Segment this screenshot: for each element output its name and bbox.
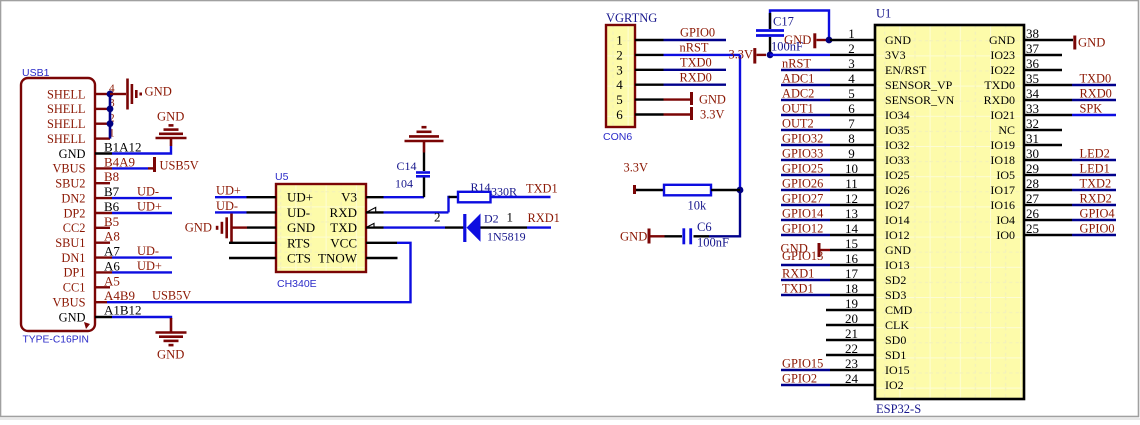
wire GPIO27 at U1 pin12 <box>781 204 830 206</box>
svg-text:GPIO33: GPIO33 <box>782 147 823 161</box>
wire net UD- <box>112 197 172 199</box>
power port GND at CON6 pin5 <box>690 92 693 105</box>
wire net UD- <box>112 256 172 258</box>
wire USB5V long run to CH340E VCC <box>107 243 411 302</box>
CON6 pin 6 stub <box>635 113 664 115</box>
svg-text:GND: GND <box>185 221 212 235</box>
svg-text:NC: NC <box>998 123 1015 137</box>
wire A1B12 to ground <box>112 317 171 319</box>
pin stub UD- <box>247 211 277 213</box>
wire UD+ into U5 <box>215 196 247 198</box>
pin stub U1 pin36 (no net) <box>1024 69 1062 71</box>
svg-text:RXD0: RXD0 <box>680 70 712 84</box>
connector USB1 body TYPE-C16PIN <box>21 78 95 331</box>
svg-text:GND: GND <box>145 85 172 99</box>
pin stub U1 pin18 <box>830 294 875 296</box>
wire RXD up to R14 <box>449 197 451 212</box>
svg-text:IO22: IO22 <box>990 63 1015 77</box>
pin stub A7 <box>95 256 112 258</box>
svg-text:TXD1: TXD1 <box>526 182 558 196</box>
wire TXD0 at U1 pin35 <box>1072 84 1116 86</box>
svg-text:27: 27 <box>1026 191 1040 206</box>
svg-text:GND: GND <box>620 230 647 244</box>
CON6 pin 5 stub <box>635 98 664 100</box>
svg-text:ADC2: ADC2 <box>782 87 814 101</box>
svg-text:LED1: LED1 <box>1080 162 1110 176</box>
wire GPIO32 at U1 pin8 <box>781 144 830 146</box>
svg-text:12: 12 <box>845 191 858 206</box>
pin stub U1 pin8 <box>830 144 875 146</box>
svg-text:GPIO14: GPIO14 <box>782 207 823 221</box>
svg-text:B1A12: B1A12 <box>104 140 142 155</box>
svg-text:2: 2 <box>434 210 441 225</box>
svg-text:5: 5 <box>848 86 855 101</box>
wire UD- into U5 <box>215 211 247 213</box>
svg-text:UD+: UD+ <box>137 200 162 214</box>
wire OUT1 at U1 pin6 <box>781 114 830 116</box>
pin stub U1 pin19 (no net) <box>826 309 875 311</box>
svg-text:RTS: RTS <box>287 235 310 250</box>
svg-text:GPIO0: GPIO0 <box>680 26 715 40</box>
svg-text:35: 35 <box>1026 71 1039 86</box>
wire TXD to D2 <box>384 226 446 228</box>
svg-text:IO12: IO12 <box>885 228 910 242</box>
svg-text:SD2: SD2 <box>885 273 906 287</box>
svg-text:GND: GND <box>157 110 184 124</box>
svg-text:SHELL: SHELL <box>47 132 86 146</box>
pin stub U1 pin24 <box>830 384 875 386</box>
wire GPIO15 at U1 pin23 <box>781 369 830 371</box>
pin stub U1 pin22 (no net) <box>826 354 875 356</box>
svg-text:U1: U1 <box>876 7 891 21</box>
USB1 SHELL pin stub <box>95 137 110 139</box>
svg-text:UD-: UD- <box>287 205 310 220</box>
svg-text:GND: GND <box>1078 36 1105 50</box>
wire GPIO33 at U1 pin9 <box>781 159 830 161</box>
svg-text:RXD1: RXD1 <box>782 267 814 281</box>
CON6 pin 4 stub <box>635 83 664 85</box>
wire GPIO26 at U1 pin11 <box>781 189 830 191</box>
svg-text:GND: GND <box>885 243 911 257</box>
pin stub U1 pin31 (no net) <box>1024 144 1062 146</box>
pin stub U1 pin23 <box>830 369 875 371</box>
svg-text:C14: C14 <box>397 159 417 173</box>
svg-text:6: 6 <box>616 107 623 122</box>
svg-text:13: 13 <box>845 206 858 221</box>
svg-text:GND: GND <box>287 220 315 235</box>
USB1 SHELL pin stub <box>95 93 110 95</box>
capacitor C6 left lead <box>665 235 683 237</box>
svg-text:C17: C17 <box>773 15 794 29</box>
pin stub U1 pin14 <box>830 234 875 236</box>
svg-text:IO16: IO16 <box>990 198 1015 212</box>
svg-text:IO13: IO13 <box>885 258 910 272</box>
pin stub U1 pin27 <box>1024 204 1072 206</box>
wire SHELL to chassis ground <box>110 93 126 95</box>
svg-text:21: 21 <box>845 326 858 341</box>
svg-text:GPIO13: GPIO13 <box>782 249 823 263</box>
capacitor C17 bottom lead <box>769 37 771 55</box>
svg-text:TYPE-C16PIN: TYPE-C16PIN <box>23 334 89 345</box>
svg-text:SBU1: SBU1 <box>55 236 85 250</box>
wire nRST vertical run lower to C6 <box>709 189 740 236</box>
svg-text:20: 20 <box>845 311 858 326</box>
wire GPIO0 from CON6 pin1 <box>664 39 727 41</box>
svg-text:33: 33 <box>1026 101 1039 116</box>
svg-text:3V3: 3V3 <box>885 48 906 62</box>
power port USB5V bar <box>153 157 156 172</box>
svg-text:R14: R14 <box>471 180 491 194</box>
svg-text:TXD: TXD <box>330 220 357 235</box>
svg-text:16: 16 <box>845 251 859 266</box>
wire GPIO12 at U1 pin14 <box>781 234 830 236</box>
power port 3.3V at CON6 pin6 <box>690 107 693 120</box>
svg-text:24: 24 <box>845 371 859 386</box>
svg-text:104: 104 <box>395 177 413 191</box>
svg-text:ADC1: ADC1 <box>782 72 814 86</box>
svg-text:IO19: IO19 <box>990 138 1015 152</box>
svg-text:SHELL: SHELL <box>47 87 86 101</box>
svg-text:IO25: IO25 <box>885 168 910 182</box>
wire RXD2 at U1 pin27 <box>1072 204 1116 206</box>
svg-text:31: 31 <box>1026 131 1039 146</box>
wire GPIO0 at U1 pin25 <box>1072 234 1116 236</box>
wire net UD+ <box>112 271 172 273</box>
svg-text:VBUS: VBUS <box>52 162 85 176</box>
svg-text:OUT2: OUT2 <box>782 117 814 131</box>
svg-text:UD-: UD- <box>137 244 159 258</box>
svg-text:4: 4 <box>616 77 623 92</box>
svg-text:37: 37 <box>1026 41 1040 56</box>
svg-text:100nF: 100nF <box>697 236 729 250</box>
svg-text:3.3V: 3.3V <box>624 161 648 175</box>
svg-text:2: 2 <box>616 47 623 62</box>
svg-text:3: 3 <box>848 56 855 71</box>
svg-text:GPIO32: GPIO32 <box>782 132 823 146</box>
pin stub A5 <box>95 286 110 288</box>
svg-text:IO18: IO18 <box>990 153 1015 167</box>
capacitor C14 bottom lead <box>423 178 425 198</box>
svg-text:UD+: UD+ <box>137 259 162 273</box>
svg-text:GPIO12: GPIO12 <box>782 222 823 236</box>
USB1 pin1-marker dot <box>84 322 90 329</box>
ground (signal-ground symbol) at SHELL <box>126 79 129 110</box>
pin stub U1 pin30 <box>1024 159 1072 161</box>
capacitor C14 plates <box>416 171 430 174</box>
svg-text:SD1: SD1 <box>885 348 906 362</box>
svg-text:UD+: UD+ <box>287 190 313 205</box>
svg-text:A5: A5 <box>104 273 120 288</box>
capacitor C14 top lead <box>423 153 425 172</box>
svg-text:IO17: IO17 <box>990 183 1015 197</box>
svg-text:1: 1 <box>848 26 855 41</box>
svg-text:IO27: IO27 <box>885 198 910 212</box>
wire RXD1 from D2 <box>527 226 551 228</box>
junction nRST/10k <box>737 187 744 194</box>
pin stub U1 pin16 <box>830 264 875 266</box>
wire TXD1 from R14 <box>491 196 551 198</box>
svg-text:IO14: IO14 <box>885 213 910 227</box>
svg-text:LED2: LED2 <box>1080 147 1110 161</box>
pin stub U1 pin20 (no net) <box>826 324 875 326</box>
svg-text:18: 18 <box>845 281 858 296</box>
pin stub U1 pin7 <box>830 129 875 131</box>
pin stub U1 pin29 <box>1024 174 1072 176</box>
USB1 SHELL pin stub <box>95 108 110 110</box>
wire GPIO14 at U1 pin13 <box>781 219 830 221</box>
svg-text:38: 38 <box>1026 26 1039 41</box>
svg-text:GND: GND <box>784 33 811 47</box>
svg-text:USB5V: USB5V <box>152 289 191 303</box>
svg-text:TXD0: TXD0 <box>1080 72 1112 86</box>
svg-text:IO32: IO32 <box>885 138 910 152</box>
svg-text:GND: GND <box>157 348 184 362</box>
pin stub B8 <box>95 182 110 184</box>
wire GPIO13 at U1 pin16 <box>781 264 830 266</box>
svg-text:DN2: DN2 <box>61 191 85 205</box>
svg-text:15: 15 <box>845 236 858 251</box>
svg-text:GPIO15: GPIO15 <box>782 357 823 371</box>
svg-text:UD-: UD- <box>216 199 238 213</box>
svg-text:GND: GND <box>59 310 86 324</box>
svg-text:1: 1 <box>507 210 514 225</box>
wire nRST from CON6 pin2 <box>664 54 741 56</box>
svg-text:SD0: SD0 <box>885 333 906 347</box>
pin stub RTS <box>229 242 276 244</box>
wire C6 to GND port <box>651 235 665 237</box>
svg-text:IO5: IO5 <box>996 168 1015 182</box>
svg-text:RXD2: RXD2 <box>1080 192 1112 206</box>
pin stub U1 pin33 <box>1024 114 1072 116</box>
svg-text:9: 9 <box>848 146 855 161</box>
svg-text:U5: U5 <box>275 171 289 183</box>
capacitor C6 right lead <box>694 235 710 237</box>
svg-text:EN/RST: EN/RST <box>885 63 927 77</box>
svg-text:8: 8 <box>848 131 855 146</box>
svg-text:GPIO0: GPIO0 <box>1080 222 1115 236</box>
svg-text:14: 14 <box>845 221 859 236</box>
wire TXD0 from CON6 pin3 <box>664 69 727 71</box>
svg-text:A7: A7 <box>104 244 120 259</box>
CON6 pin 2 stub <box>635 54 664 56</box>
wire ADC1 at U1 pin4 <box>781 84 830 86</box>
pin stub U1 pin3 <box>830 69 875 71</box>
svg-text:SBU2: SBU2 <box>55 177 85 191</box>
IC U1 ESP32-S body <box>875 25 1024 399</box>
resistor R14 left lead <box>449 196 459 198</box>
svg-text:B7: B7 <box>104 184 120 199</box>
svg-text:VGRTNG: VGRTNG <box>606 11 657 25</box>
pin stub U1 pin10 <box>830 174 875 176</box>
capacitor C17 plates <box>756 29 784 32</box>
pin stub U1 pin32 (no net) <box>1024 129 1062 131</box>
svg-text:3.3V: 3.3V <box>729 48 753 62</box>
svg-text:IO0: IO0 <box>996 228 1015 242</box>
svg-text:nRST: nRST <box>680 40 709 54</box>
pin stub U1 pin34 <box>1024 99 1072 101</box>
svg-text:GPIO26: GPIO26 <box>782 177 823 191</box>
pin stub CTS <box>229 257 276 259</box>
svg-text:TXD2: TXD2 <box>1080 177 1112 191</box>
svg-text:GPIO4: GPIO4 <box>1080 207 1115 221</box>
wire V3 to C14 <box>384 196 425 198</box>
junction GND/C17/U1 pin1 <box>826 37 833 44</box>
pin stub U1 pin11 <box>830 189 875 191</box>
pin stub GND B1A12 <box>95 152 112 154</box>
ground (inverted, points up) above C14 <box>423 141 426 153</box>
U1 pin 2 stub <box>830 54 875 56</box>
svg-text:B6: B6 <box>104 199 120 214</box>
wire VBUS to USB5V port <box>112 167 148 169</box>
IC U5 CH340E body <box>276 184 366 272</box>
svg-text:34: 34 <box>1026 86 1040 101</box>
svg-text:B5: B5 <box>104 214 119 229</box>
svg-text:IO33: IO33 <box>885 153 910 167</box>
capacitor C17 top lead <box>769 13 771 29</box>
svg-text:TXD0: TXD0 <box>680 55 712 69</box>
resistor 10k left lead <box>636 189 664 191</box>
U1 pin 1 stub <box>830 39 875 41</box>
svg-text:IO26: IO26 <box>885 183 910 197</box>
svg-text:ESP32-S: ESP32-S <box>876 402 921 416</box>
pin stub A4B9 <box>95 301 107 303</box>
svg-text:DP1: DP1 <box>63 266 85 280</box>
wire CON6 pin5 to GND port <box>664 98 691 100</box>
svg-text:22: 22 <box>845 341 858 356</box>
svg-text:7: 7 <box>848 116 855 131</box>
svg-text:UD+: UD+ <box>216 184 241 198</box>
svg-text:CTS: CTS <box>287 251 311 266</box>
svg-text:RXD: RXD <box>330 205 357 220</box>
svg-text:IO2: IO2 <box>885 378 904 392</box>
pin stub B6 <box>95 212 112 214</box>
svg-text:1N5819: 1N5819 <box>487 230 526 244</box>
svg-text:IO35: IO35 <box>885 123 910 137</box>
resistor 10k body <box>664 185 711 196</box>
wire SHELL bus vertical <box>109 94 112 139</box>
wire nRST vertical run upper <box>739 55 741 190</box>
svg-text:B8: B8 <box>104 169 119 184</box>
connector CON6 body <box>606 25 635 127</box>
svg-text:A6: A6 <box>104 258 120 273</box>
svg-text:3.3V: 3.3V <box>700 108 724 122</box>
svg-text:D2: D2 <box>484 212 499 226</box>
power port GND at U1 pin38 <box>1073 36 1076 50</box>
svg-text:19: 19 <box>845 296 858 311</box>
pin stub U1 pin21 (no net) <box>826 339 875 341</box>
svg-text:SPK: SPK <box>1080 102 1103 116</box>
svg-text:3: 3 <box>616 62 623 77</box>
pin stub U1 pin4 <box>830 84 875 86</box>
svg-text:OUT1: OUT1 <box>782 102 814 116</box>
pin stub U1 pin6 <box>830 114 875 116</box>
svg-text:SHELL: SHELL <box>47 102 86 116</box>
svg-text:GND: GND <box>699 93 726 107</box>
wire C17 loop top <box>770 11 829 41</box>
svg-text:36: 36 <box>1026 56 1040 71</box>
svg-text:29: 29 <box>1026 161 1039 176</box>
pin stub B7 <box>95 197 112 199</box>
diode D2 pin1 lead <box>481 226 528 228</box>
junction C17/3.3V/U1 pin2 <box>767 52 774 59</box>
svg-text:6: 6 <box>848 101 855 116</box>
svg-text:VCC: VCC <box>330 235 357 250</box>
wire U5 GND pin <box>232 226 247 228</box>
svg-text:IO4: IO4 <box>996 213 1015 227</box>
pin stub U1 pin13 <box>830 219 875 221</box>
junction dots on SHELL bus <box>107 91 114 98</box>
pin stub U1 pin12 <box>830 204 875 206</box>
svg-text:RXD0: RXD0 <box>1080 87 1112 101</box>
svg-text:nRST: nRST <box>782 57 811 71</box>
svg-text:17: 17 <box>845 266 859 281</box>
wire CON6 pin6 to 3.3V port <box>664 113 691 115</box>
svg-text:GPIO27: GPIO27 <box>782 192 823 206</box>
svg-text:1: 1 <box>616 33 623 48</box>
wire net UD+ <box>112 212 172 214</box>
svg-text:SENSOR_VP: SENSOR_VP <box>885 78 953 92</box>
svg-text:26: 26 <box>1026 206 1040 221</box>
USB1 SHELL pin stub <box>95 122 110 124</box>
ground GND (points down) at A1B12 <box>170 318 173 333</box>
wire ADC2 at U1 pin5 <box>781 99 830 101</box>
diode D2 pin2 lead <box>445 226 464 228</box>
pin stub TNOW <box>366 257 398 259</box>
svg-text:28: 28 <box>1026 176 1039 191</box>
svg-text:A1B12: A1B12 <box>104 303 142 318</box>
pin stub U1 pin37 (no net) <box>1024 54 1062 56</box>
pin stub B5 <box>95 227 110 229</box>
svg-text:USB5V: USB5V <box>160 159 199 173</box>
pin stub U1 pin9 <box>830 159 875 161</box>
svg-text:CMD: CMD <box>885 303 913 317</box>
pin stub U1 pin5 <box>830 99 875 101</box>
svg-text:CC2: CC2 <box>63 221 86 235</box>
wire TXD2 at U1 pin28 <box>1072 189 1116 191</box>
svg-text:GND: GND <box>989 33 1015 47</box>
svg-text:DN1: DN1 <box>61 251 85 265</box>
svg-text:A4B9: A4B9 <box>104 288 135 303</box>
pin stub VCC <box>366 242 397 244</box>
svg-text:GPIO25: GPIO25 <box>782 162 823 176</box>
pin stub U1 pin17 <box>830 279 875 281</box>
pin stub U1 pin25 <box>1024 234 1072 236</box>
ground GND (inverted, points up) at B1A12 <box>170 138 173 146</box>
pin stub U1 pin28 <box>1024 189 1072 191</box>
svg-text:SHELL: SHELL <box>47 117 86 131</box>
pin stub A6 <box>95 271 112 273</box>
svg-text:IO23: IO23 <box>990 48 1015 62</box>
pin stub U1 pin35 <box>1024 84 1072 86</box>
svg-text:TXD0: TXD0 <box>984 78 1015 92</box>
svg-text:10k: 10k <box>688 199 708 213</box>
svg-text:CON6: CON6 <box>603 131 632 143</box>
resistor 10k right lead <box>711 189 740 191</box>
wire LED2 at U1 pin30 <box>1072 159 1116 161</box>
svg-text:IO15: IO15 <box>885 363 910 377</box>
pin stub UD+ <box>247 196 277 198</box>
svg-text:A8: A8 <box>104 229 120 244</box>
svg-text:32: 32 <box>1026 116 1039 131</box>
svg-text:V3: V3 <box>341 190 357 205</box>
svg-text:IO21: IO21 <box>990 108 1015 122</box>
svg-text:25: 25 <box>1026 221 1039 236</box>
svg-text:10: 10 <box>845 161 858 176</box>
svg-text:11: 11 <box>845 176 858 191</box>
svg-text:DP2: DP2 <box>63 206 85 220</box>
svg-text:TNOW: TNOW <box>318 251 358 266</box>
wire SPK at U1 pin33 <box>1072 114 1116 116</box>
